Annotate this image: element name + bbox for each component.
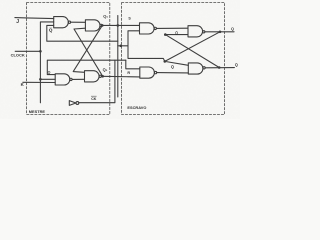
wire master cross diagonal D2 [74, 28, 103, 76]
op-amp gate G8 slave latch NAND bottom [188, 63, 203, 74]
node clock junction CLOCK [39, 50, 42, 53]
wire slave cross diagonal Db [165, 32, 220, 66]
node jog dot [120, 45, 123, 48]
wire G7 out Q [205, 31, 234, 33]
node G4 out tap [101, 75, 104, 78]
wire G1 out [71, 21, 86, 23]
wire CLOCK input [15, 50, 40, 52]
op-amp gate G3 master latch NAND top [85, 20, 100, 31]
wire clock riser [40, 22, 53, 103]
wire G2 out [72, 78, 84, 80]
wire G3 out S rail [102, 24, 139, 26]
wire clock stub gate2 [40, 78, 55, 80]
node Db stub dot [164, 60, 167, 63]
op-amp gate G1 J-input NAND [54, 17, 69, 28]
op-amp gate G4 master latch NAND bottom [85, 71, 100, 82]
wire G5 out [156, 27, 188, 29]
node S rail dot [117, 24, 120, 27]
node Qbar tap [218, 66, 221, 69]
node Q tap [219, 31, 222, 34]
wire CKbar from inverter [79, 60, 115, 102]
ESCRAVO dashed box [122, 3, 225, 115]
op-amp gate G5 slave S NAND [140, 23, 155, 34]
wire CK riser A to G6 [126, 60, 140, 69]
wire Q feedback to gate2 [47, 60, 126, 74]
wire Qbar feedback to gate1 [47, 25, 118, 41]
op-amp gate G7 slave latch NAND top [188, 26, 203, 37]
wire G6 out [157, 72, 189, 74]
transistor-style clock inverter [69, 101, 76, 106]
op-amp gate G2 K-input NAND [55, 74, 70, 85]
wire J input [15, 18, 54, 19]
wire channel jog [118, 45, 128, 47]
MESTRE dashed box [27, 3, 110, 115]
wire V2 channel vertical [117, 16, 119, 98]
node G3 out tap [101, 24, 104, 27]
wire master cross diagonal D1 [73, 25, 102, 72]
wire K input [23, 81, 55, 83]
node clock junction gate2 [39, 78, 42, 81]
wire slave cross diagonal Da [165, 35, 219, 68]
wire G4 out R rail [101, 75, 139, 78]
wire CK riser B to G5 [128, 31, 165, 62]
node Da stub dot [164, 33, 167, 36]
op-amp gate G6 slave R NAND [140, 67, 155, 78]
label CKbar overline [91, 95, 97, 98]
wire G8 out Qbar [205, 67, 234, 69]
